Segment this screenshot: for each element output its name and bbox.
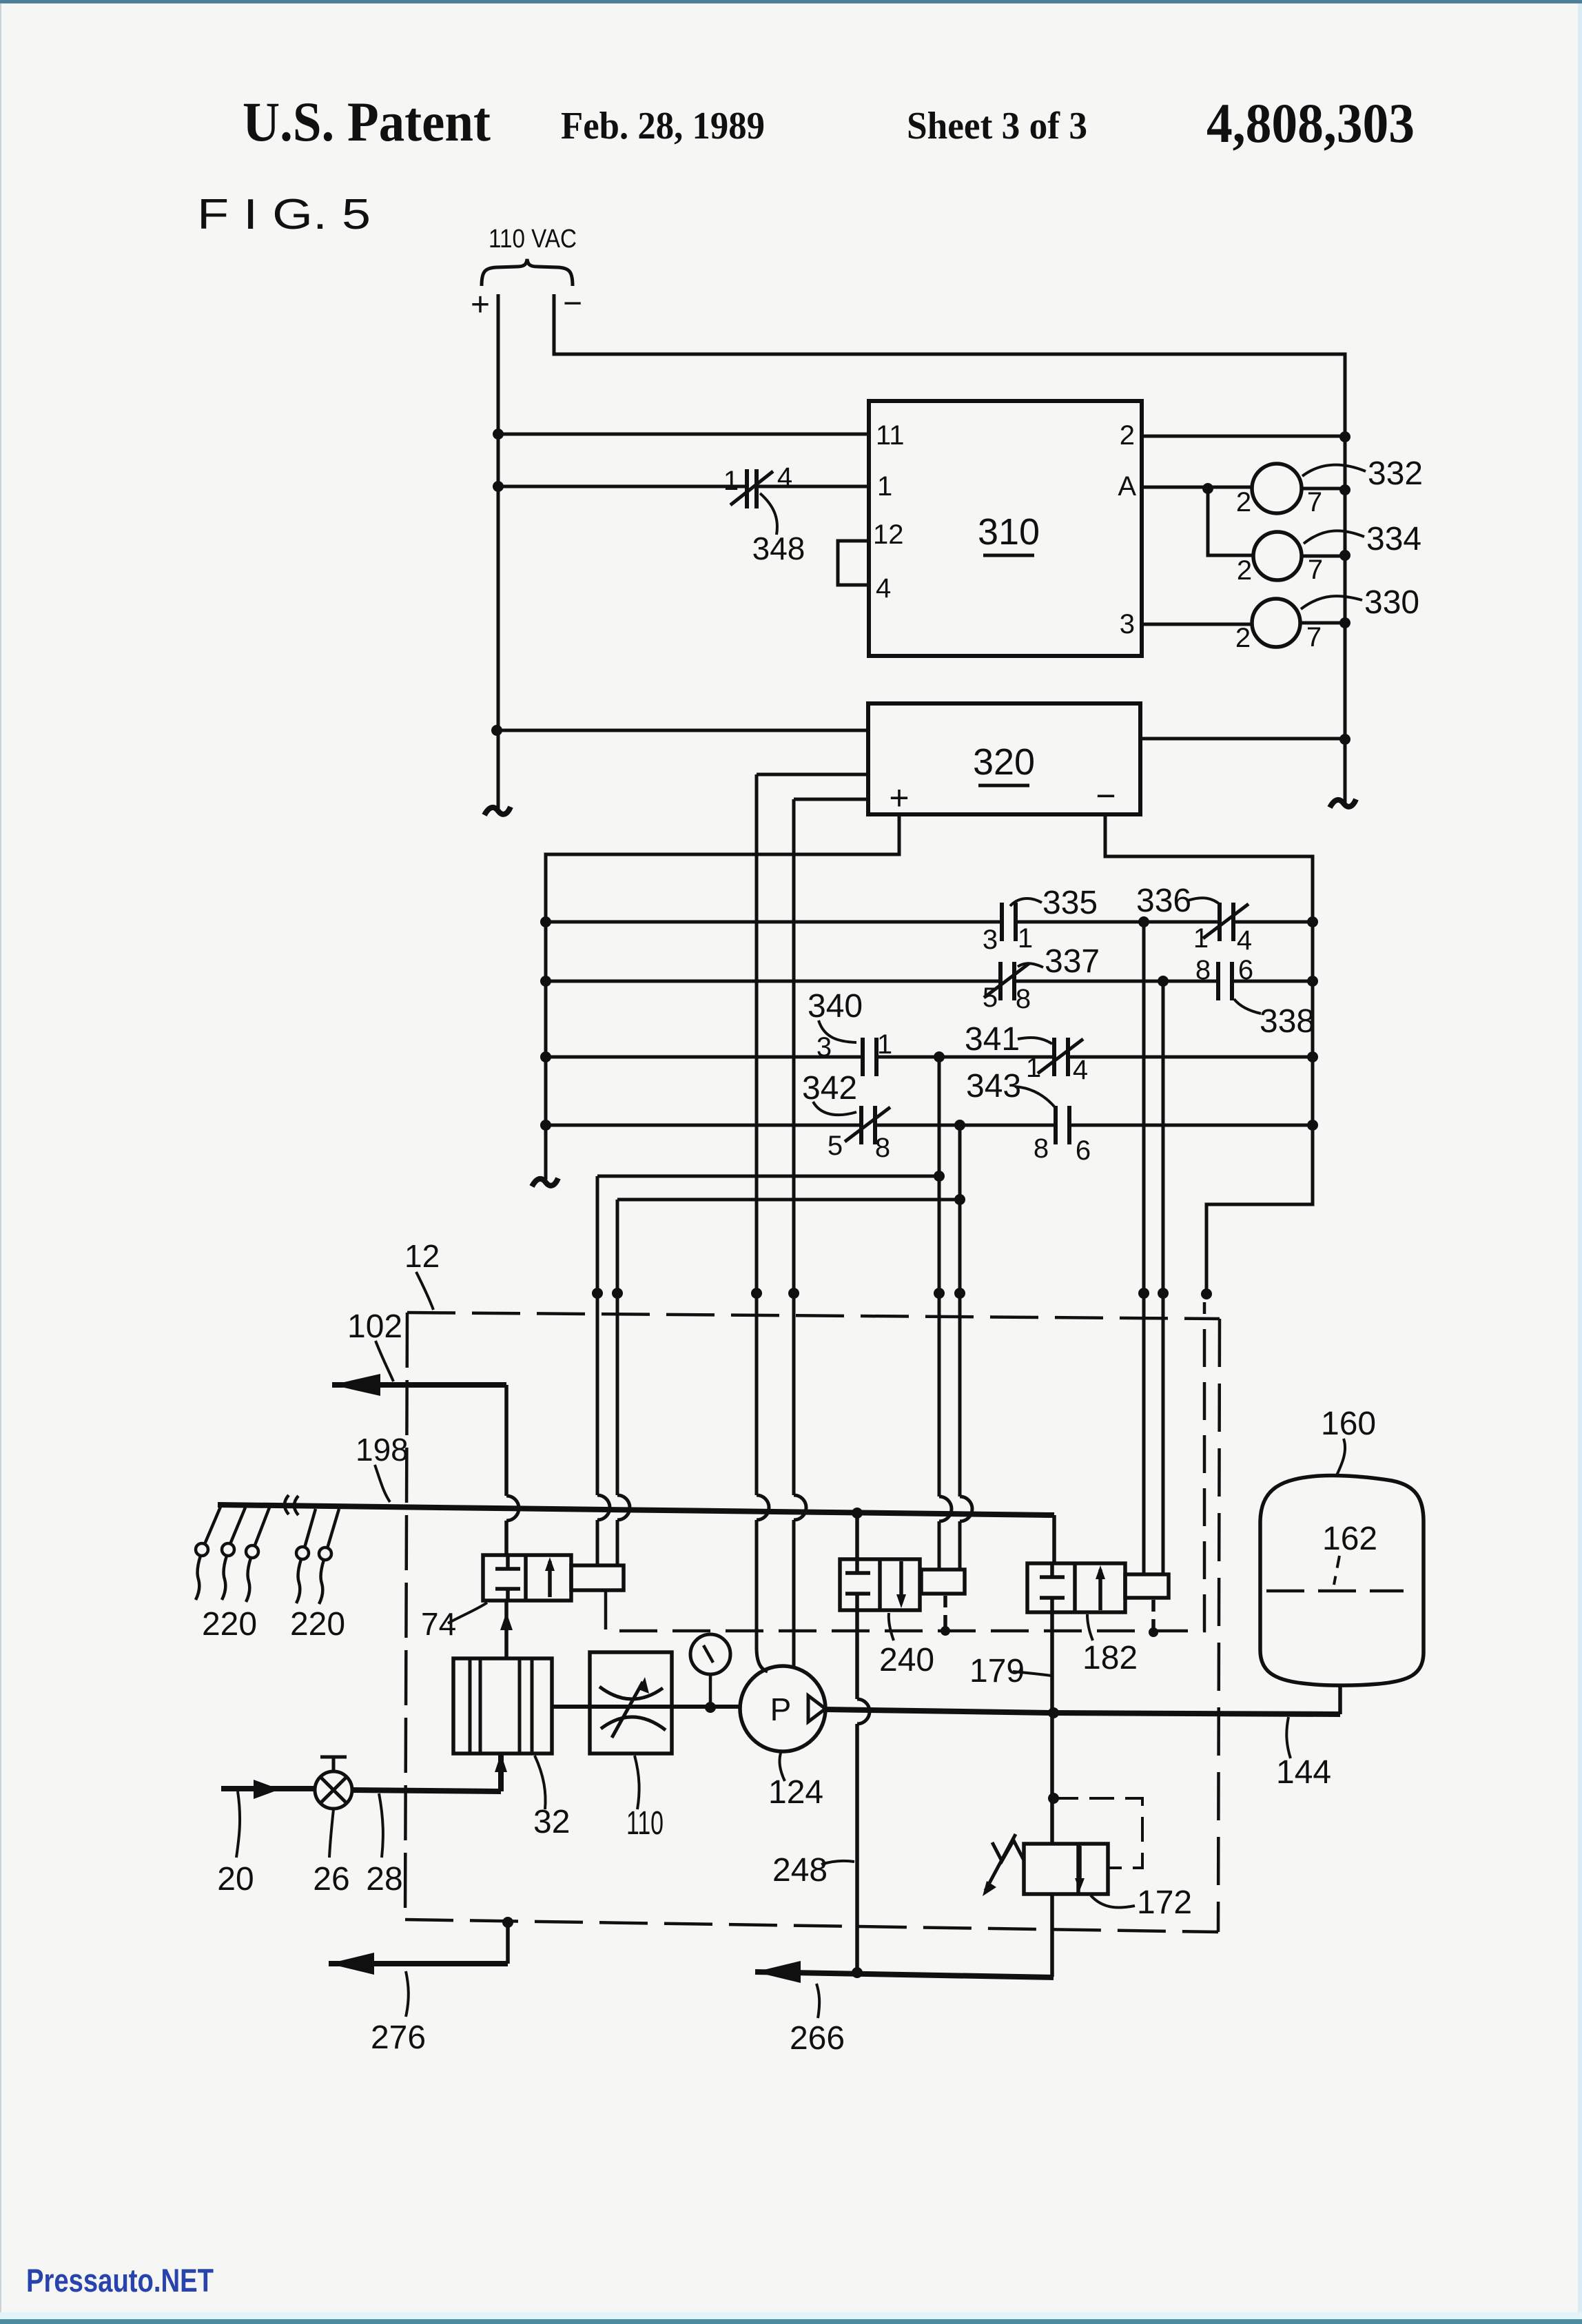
svg-text:32: 32 (533, 1804, 570, 1840)
svg-text:335: 335 (1042, 885, 1098, 921)
svg-text:1: 1 (877, 471, 892, 502)
svg-text:266: 266 (790, 2020, 845, 2057)
svg-text:2: 2 (1236, 487, 1251, 517)
svg-text:198: 198 (356, 1432, 409, 1468)
svg-text:330: 330 (1364, 584, 1419, 621)
svg-text:8: 8 (1034, 1133, 1049, 1164)
svg-text:1: 1 (1018, 923, 1033, 954)
svg-text:20: 20 (217, 1861, 254, 1898)
svg-text:2: 2 (1237, 555, 1252, 586)
svg-text:1: 1 (1026, 1053, 1041, 1083)
svg-text:U.S. Patent: U.S. Patent (243, 90, 491, 153)
svg-text:340: 340 (808, 988, 863, 1025)
svg-text:1: 1 (723, 466, 739, 496)
svg-text:172: 172 (1137, 1884, 1192, 1921)
svg-text:F I G. 5: F I G. 5 (197, 191, 371, 238)
svg-text:179: 179 (969, 1653, 1025, 1689)
svg-text:348: 348 (752, 531, 805, 566)
svg-text:332: 332 (1368, 455, 1423, 492)
svg-text:7: 7 (1306, 622, 1322, 652)
svg-text:−: − (1096, 777, 1116, 815)
svg-text:7: 7 (1308, 555, 1323, 585)
svg-text:124: 124 (768, 1774, 823, 1811)
svg-text:144: 144 (1276, 1754, 1331, 1791)
svg-text:341: 341 (965, 1021, 1020, 1058)
svg-text:337: 337 (1045, 943, 1100, 980)
svg-text:−: − (563, 285, 582, 322)
svg-text:310: 310 (978, 511, 1040, 553)
svg-text:2: 2 (1235, 623, 1251, 653)
svg-text:Feb. 28, 1989: Feb. 28, 1989 (561, 105, 765, 147)
svg-text:6: 6 (1238, 955, 1253, 985)
svg-text:8: 8 (1016, 984, 1031, 1014)
svg-text:343: 343 (966, 1068, 1021, 1104)
svg-text:220: 220 (202, 1606, 257, 1643)
svg-text:160: 160 (1321, 1406, 1376, 1442)
svg-text:11: 11 (876, 420, 905, 451)
svg-text:+: + (471, 287, 490, 323)
svg-text:4: 4 (876, 573, 891, 604)
svg-text:182: 182 (1082, 1640, 1138, 1676)
svg-text:Pressauto.NET: Pressauto.NET (26, 2262, 214, 2299)
svg-text:334: 334 (1366, 521, 1421, 557)
svg-text:3: 3 (983, 925, 998, 955)
svg-text:110: 110 (626, 1805, 664, 1842)
svg-text:74: 74 (421, 1606, 456, 1642)
svg-text:+: + (889, 779, 909, 817)
svg-text:248: 248 (772, 1852, 828, 1889)
svg-text:5: 5 (983, 983, 998, 1013)
svg-text:240: 240 (879, 1642, 934, 1678)
svg-text:162: 162 (1322, 1521, 1377, 1557)
svg-text:2: 2 (1120, 420, 1135, 451)
svg-text:12: 12 (404, 1238, 440, 1274)
svg-text:Sheet 3 of 3: Sheet 3 of 3 (907, 105, 1087, 147)
svg-text:8: 8 (875, 1133, 890, 1163)
svg-text:28: 28 (366, 1861, 402, 1898)
svg-text:A: A (1118, 471, 1136, 502)
svg-text:102: 102 (347, 1308, 402, 1345)
svg-text:220: 220 (290, 1606, 345, 1643)
svg-text:110 VAC: 110 VAC (489, 225, 577, 254)
svg-text:1: 1 (1193, 923, 1209, 954)
svg-text:338: 338 (1260, 1003, 1315, 1040)
svg-text:8: 8 (1195, 955, 1211, 985)
svg-text:3: 3 (816, 1032, 832, 1062)
svg-text:7: 7 (1307, 487, 1322, 517)
svg-text:320: 320 (973, 741, 1035, 783)
svg-text:336: 336 (1136, 883, 1191, 919)
svg-text:1: 1 (877, 1029, 892, 1060)
svg-text:26: 26 (313, 1861, 349, 1898)
svg-text:4,808,303: 4,808,303 (1206, 92, 1415, 154)
svg-text:3: 3 (1120, 609, 1135, 639)
svg-text:4: 4 (1237, 925, 1252, 956)
svg-text:P: P (770, 1691, 792, 1727)
svg-text:12: 12 (873, 520, 904, 550)
svg-text:4: 4 (777, 462, 792, 493)
svg-text:6: 6 (1076, 1135, 1091, 1166)
svg-text:276: 276 (371, 2019, 426, 2056)
svg-text:342: 342 (802, 1070, 857, 1107)
svg-text:5: 5 (828, 1131, 843, 1161)
svg-text:4: 4 (1073, 1055, 1088, 1085)
